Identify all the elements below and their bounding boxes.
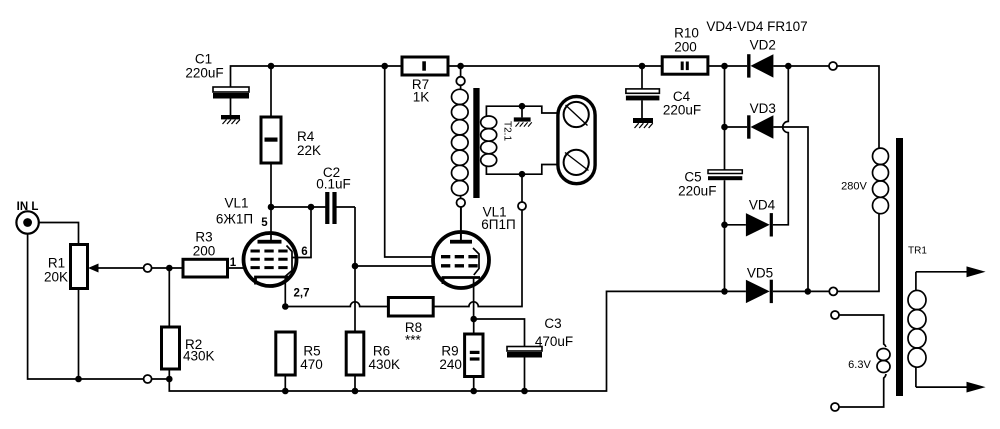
ground (C1)	[221, 115, 240, 124]
wire AC top to TR1 280V winding	[837, 66, 879, 148]
svg-text:1: 1	[230, 257, 237, 269]
capacitor C4	[626, 66, 701, 118]
svg-text:T2.1: T2.1	[502, 121, 513, 141]
wire R8 to feedback with hop over cathode line	[433, 210, 522, 307]
diode VD2	[747, 38, 776, 78]
transformer T2.1 primary winding	[452, 85, 469, 198]
anode lead (pin 5)	[270, 207, 272, 240]
svg-text:1K: 1K	[413, 90, 430, 105]
svg-text:R4: R4	[297, 129, 315, 144]
TR1 mains winding	[908, 272, 926, 387]
svg-text:C3: C3	[544, 316, 561, 331]
diode VD3	[725, 101, 776, 139]
svg-text:6.3V: 6.3V	[848, 359, 871, 371]
anode bar tube1	[258, 240, 282, 244]
wire cathode node to C3	[474, 319, 525, 347]
node junction dots group 1	[75, 63, 811, 395]
capacitor C5	[678, 170, 742, 199]
terminal circle 6.3V bottom	[831, 403, 839, 411]
terminal circle (ground row)	[144, 375, 152, 383]
svg-text:VL1: VL1	[224, 196, 248, 211]
resistor R10	[662, 26, 708, 75]
wire bridge left column	[724, 66, 726, 291]
resistor R7	[402, 57, 448, 105]
svg-text:VD4: VD4	[749, 198, 776, 213]
svg-text:VD4-VD4 FR107: VD4-VD4 FR107	[706, 19, 807, 34]
svg-text:IN L: IN L	[17, 201, 39, 213]
svg-text:280V: 280V	[841, 181, 867, 193]
terminal circle AC bottom	[829, 287, 837, 295]
svg-text:470: 470	[300, 357, 323, 372]
tube VL1 6P1P envelope	[433, 232, 489, 288]
svg-text:5: 5	[261, 217, 268, 229]
tube VL1 6Zh1P envelope	[244, 233, 297, 286]
wire VD2 column with hop over VD3 wire	[773, 66, 788, 225]
svg-text:VD3: VD3	[750, 101, 776, 116]
svg-text:22K: 22K	[297, 143, 321, 158]
wire secondary bottom to speaker	[522, 165, 558, 175]
wire circle to R3 node	[152, 267, 183, 269]
TR1 core	[896, 138, 903, 396]
ground rail lower step	[169, 291, 724, 391]
transformer T2.1 primary terminal bottom	[457, 198, 466, 240]
diode VD5	[725, 266, 830, 304]
wire pin6 to C2 node	[292, 207, 311, 258]
resistor R9	[439, 319, 483, 391]
svg-text:R1: R1	[48, 256, 65, 271]
TR1 6.3V winding	[839, 315, 890, 407]
svg-text:C5: C5	[684, 170, 701, 185]
svg-text:200: 200	[193, 244, 216, 259]
resistor R2	[162, 268, 215, 379]
svg-text:200: 200	[674, 40, 697, 55]
TR1 280V winding	[837, 148, 888, 291]
anode lead tube2	[460, 207, 462, 240]
svg-text:0.1uF: 0.1uF	[316, 177, 351, 192]
wire jack to ground rail	[28, 233, 170, 379]
ground (secondary top)	[514, 106, 532, 126]
resistor R3	[183, 230, 246, 278]
capacitor C1	[185, 52, 249, 116]
svg-text:220uF: 220uF	[663, 103, 701, 118]
svg-text:6: 6	[301, 246, 307, 258]
svg-text:TR1: TR1	[908, 246, 927, 257]
svg-text:***: ***	[405, 333, 422, 348]
transformer T2.1 secondary winding	[481, 106, 522, 174]
wire grid row to tube 2	[355, 265, 434, 267]
terminal circle AC top	[829, 62, 837, 70]
cathode tube1	[256, 277, 289, 307]
internal bracket tube1	[285, 246, 293, 278]
svg-text:R3: R3	[195, 230, 212, 245]
svg-text:2,7: 2,7	[294, 288, 310, 300]
transformer T2.1 primary terminal top	[456, 66, 465, 85]
input jack IN L	[16, 201, 38, 234]
resistor R6	[346, 332, 400, 391]
output arrow bottom	[916, 382, 986, 393]
diode VD4	[725, 198, 776, 237]
wire cathode row with hop over R6 line	[285, 302, 388, 307]
wire jack to R1 top	[38, 223, 78, 245]
wire secondary top to speaker	[522, 106, 558, 113]
capacitor C3	[507, 316, 573, 391]
terminal circle 6.3V top	[831, 311, 839, 319]
svg-text:430K: 430K	[369, 357, 401, 372]
resistor R5	[276, 332, 323, 391]
transformer T2.1 core	[473, 88, 479, 198]
anode bar tube2	[450, 240, 472, 244]
feedback terminal circle	[518, 202, 526, 210]
internal bracket tube2	[473, 248, 479, 275]
svg-text:430K: 430K	[183, 349, 215, 364]
svg-text:220uF: 220uF	[678, 184, 716, 199]
svg-text:R10: R10	[674, 26, 699, 41]
wire top B+ rail	[231, 66, 830, 87]
ground (C4)	[633, 118, 653, 128]
potentiometer R1	[44, 245, 144, 380]
svg-text:220uF: 220uF	[185, 66, 223, 81]
svg-text:VD5: VD5	[747, 266, 773, 281]
svg-text:6Ж1П: 6Ж1П	[216, 212, 253, 227]
wire secondary bottom to feedback terminal	[521, 174, 523, 202]
cathode tube2	[443, 278, 480, 320]
grid rows tube1	[251, 251, 288, 268]
svg-text:470uF: 470uF	[535, 334, 573, 349]
wire VD3 to right column	[773, 127, 808, 291]
capacitor C2	[271, 165, 355, 224]
resistor R8	[388, 298, 433, 348]
svg-text:VD2: VD2	[750, 38, 776, 53]
svg-text:C1: C1	[195, 52, 212, 67]
svg-text:240: 240	[439, 357, 462, 372]
terminal circle (wiper row)	[144, 264, 152, 272]
output arrow top	[916, 266, 986, 277]
svg-text:20K: 20K	[44, 270, 68, 285]
speaker (stadium with two drivers)	[558, 97, 595, 184]
resistor R4	[261, 66, 321, 207]
wire C2 to grid of VL1b and R6	[354, 207, 356, 332]
grid rows tube2	[441, 257, 478, 266]
svg-text:6П1П: 6П1П	[481, 217, 515, 232]
wire screen grid from B+	[385, 66, 434, 257]
